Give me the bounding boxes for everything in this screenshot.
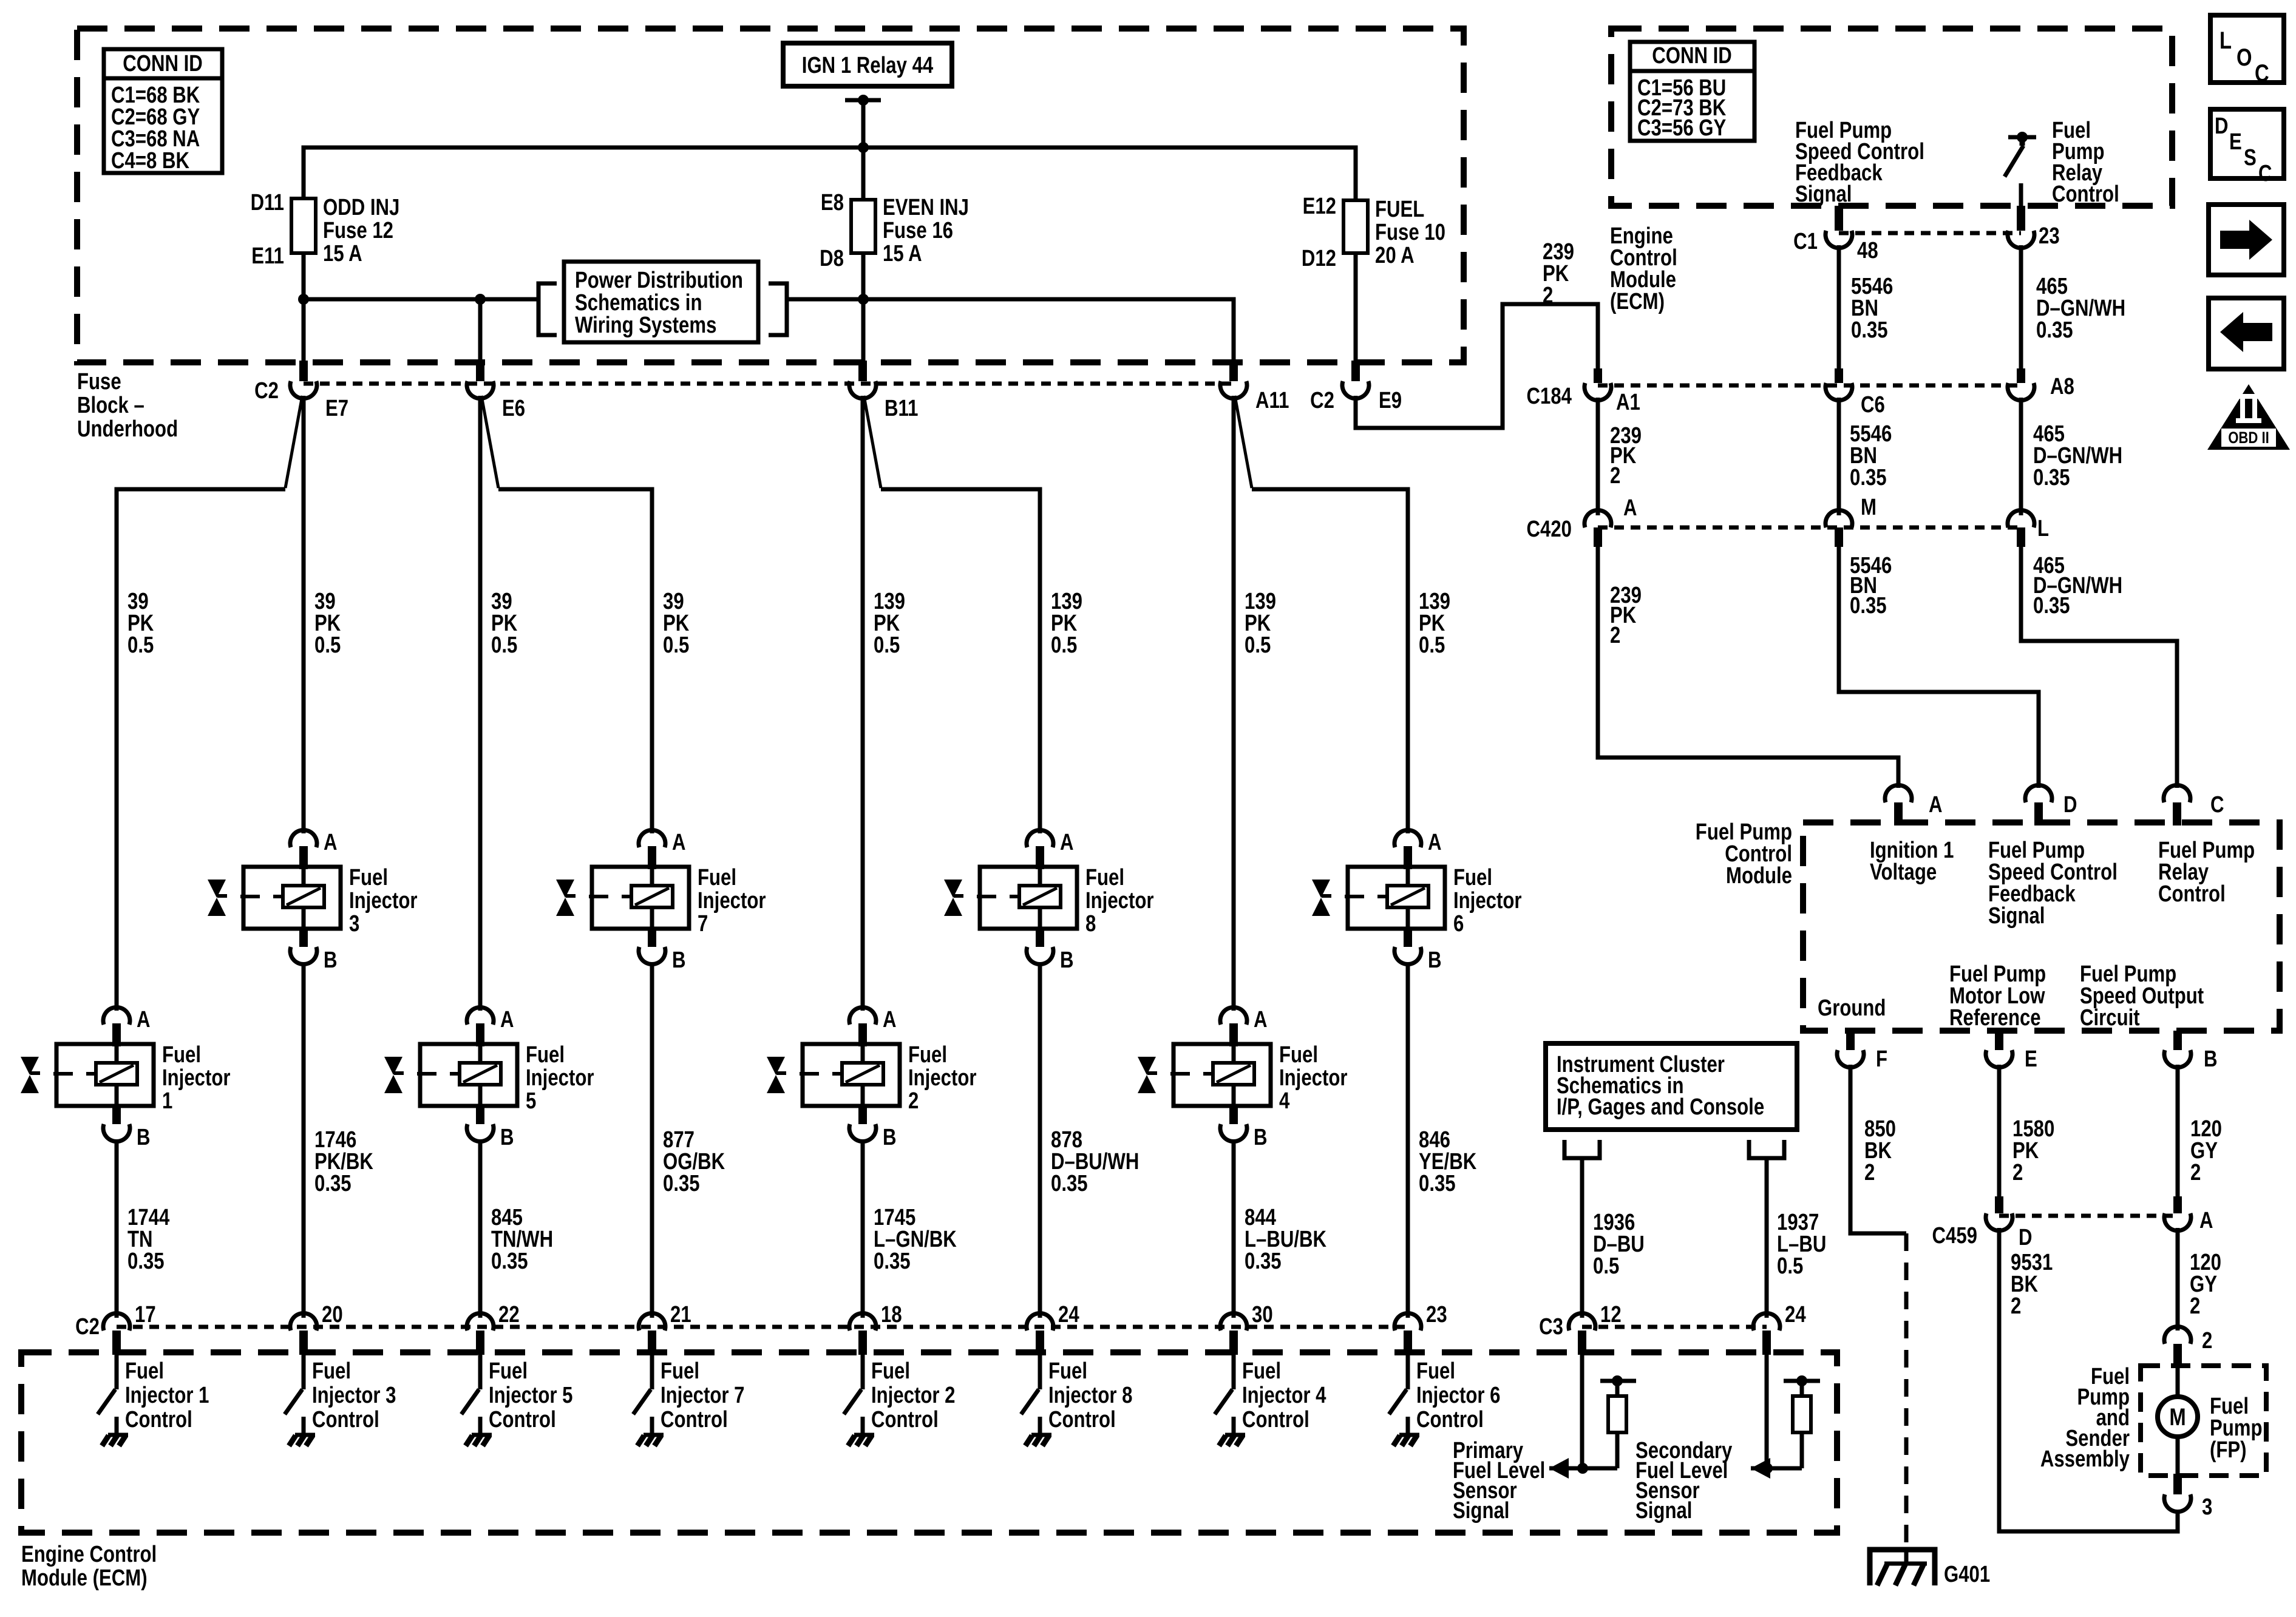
svg-text:Engine Control: Engine Control: [21, 1542, 157, 1567]
fuel injector 3 control driver switch: [285, 1355, 304, 1434]
svg-text:Control: Control: [489, 1407, 556, 1432]
wire label 1936 D-BU 0.5: [1593, 1210, 1645, 1279]
ground (injector 2 driver): [848, 1435, 874, 1446]
connector B11: [849, 361, 918, 421]
fuel injector 3: [208, 830, 418, 973]
LOC icon: [2210, 15, 2284, 87]
CONN ID table (fuse block): [104, 49, 222, 174]
svg-text:0.35: 0.35: [314, 1171, 352, 1196]
junction bus2/even fuse output: [858, 294, 869, 305]
label fuel injector 8 control: [1048, 1358, 1132, 1432]
svg-text:Injector 8: Injector 8: [1048, 1383, 1132, 1408]
connector C459 D: [1932, 1196, 2033, 1250]
svg-text:Fuel: Fuel: [1085, 865, 1124, 890]
svg-text:Fuel: Fuel: [125, 1358, 164, 1384]
ground (injector 8 driver): [1025, 1435, 1051, 1446]
svg-text:0.35: 0.35: [874, 1249, 911, 1274]
svg-text:Assembly: Assembly: [2040, 1446, 2130, 1472]
svg-text:Fuel: Fuel: [698, 865, 736, 890]
pin A (fuel pump module): [1885, 785, 1943, 825]
power distribution left bracket: [538, 283, 557, 335]
fuel injector 7: [556, 830, 766, 973]
secondary sensor signal arrow: [1751, 1458, 1802, 1479]
svg-text:Fuel: Fuel: [1048, 1358, 1087, 1384]
svg-text:E7: E7: [325, 396, 348, 421]
wire C420 L to fuel pump module C: [2021, 547, 2177, 788]
wire B to C459 A (120 GY 2): [2176, 1065, 2180, 1196]
wire label 5546 BN 0.35 (mid): [1850, 421, 1892, 490]
svg-text:C4=8 BK: C4=8 BK: [111, 148, 189, 174]
svg-text:B: B: [500, 1125, 514, 1150]
svg-text:Fuse 10: Fuse 10: [1375, 220, 1445, 245]
instrument cluster left bracket stub: [1564, 1140, 1600, 1158]
svg-text:Fuel: Fuel: [526, 1042, 565, 1068]
svg-text:Fuse 12: Fuse 12: [323, 218, 393, 243]
svg-text:Schematics in: Schematics in: [575, 290, 702, 316]
wire B11 branch to col6: [864, 396, 1040, 833]
svg-text:IGN 1 Relay 44: IGN 1 Relay 44: [802, 53, 934, 78]
svg-text:Injector: Injector: [1279, 1065, 1348, 1091]
ECM pin 24: [1753, 1302, 1806, 1355]
connector C420 L: [2008, 510, 2049, 547]
wire below injector 5: [478, 1140, 483, 1318]
bus1 horizontal feed wire: [304, 147, 1356, 200]
svg-text:Signal: Signal: [1635, 1498, 1692, 1524]
svg-text:D11: D11: [251, 190, 284, 215]
label fuel pump relay control (top): [2052, 118, 2119, 207]
right arrow icon: [2209, 205, 2284, 275]
svg-text:A: A: [1428, 830, 1442, 855]
fuel pump control module dashed box: [1803, 822, 2280, 1031]
svg-text:C: C: [2255, 59, 2269, 87]
connector E7: [254, 361, 348, 421]
svg-text:Fuel: Fuel: [1453, 865, 1492, 890]
left arrow icon: [2209, 298, 2284, 369]
svg-text:0.35: 0.35: [2033, 465, 2070, 490]
svg-text:20: 20: [322, 1302, 343, 1327]
relay output tick and junction: [845, 95, 881, 106]
svg-text:A: A: [1254, 1007, 1268, 1032]
ECM pin 48 (C1): [1793, 206, 1878, 263]
wire pin 24 into ECM: [1765, 1355, 1769, 1468]
svg-text:Injector: Injector: [349, 888, 418, 914]
fuel injector 7 control driver switch: [633, 1355, 652, 1434]
ground (injector 6 driver): [1393, 1435, 1419, 1446]
svg-text:Signal: Signal: [1988, 903, 2045, 929]
svg-text:Module (ECM): Module (ECM): [21, 1565, 148, 1591]
svg-text:B11: B11: [885, 396, 918, 421]
svg-text:Control: Control: [1242, 1407, 1309, 1432]
svg-text:2: 2: [2190, 1160, 2201, 1185]
svg-text:A: A: [672, 830, 686, 855]
svg-text:0.35: 0.35: [1419, 1171, 1456, 1196]
svg-text:Fuel: Fuel: [661, 1358, 699, 1384]
wire ground 850 BK to G401: [1850, 1065, 1906, 1548]
svg-text:2: 2: [1610, 463, 1620, 489]
connector row C459 dotted line: [1999, 1214, 2178, 1218]
wire label 878 D&#8211;BU/WH: [1051, 1127, 1139, 1196]
svg-text:A1: A1: [1616, 390, 1640, 415]
svg-text:C6: C6: [1861, 392, 1885, 418]
ECM pin 23: [2008, 206, 2060, 249]
svg-text:3: 3: [2202, 1494, 2212, 1520]
connector row C1 dotted line: [1839, 231, 2021, 236]
svg-text:0.5: 0.5: [1593, 1253, 1619, 1279]
label fuel pump speed control feedback signal (module): [1988, 838, 2118, 929]
ECM pin 22: [467, 1302, 520, 1355]
svg-text:3: 3: [349, 911, 359, 937]
wire label 845 TN/WH: [491, 1205, 553, 1274]
svg-text:2: 2: [1610, 623, 1620, 648]
svg-text:8: 8: [1085, 911, 1096, 937]
wire label 1745 L&#8211;GN/BK: [874, 1205, 957, 1274]
wire E7 branch to col1: [117, 396, 302, 1011]
svg-text:Fuel: Fuel: [489, 1358, 528, 1384]
svg-text:A: A: [137, 1007, 151, 1032]
svg-text:A8: A8: [2050, 374, 2074, 399]
svg-text:Fuel: Fuel: [908, 1042, 947, 1068]
svg-text:48: 48: [1857, 238, 1878, 263]
svg-text:Control: Control: [1048, 1407, 1116, 1432]
CONN ID table (ECM): [1630, 42, 1754, 141]
svg-text:Injector 3: Injector 3: [312, 1383, 396, 1408]
svg-text:C2: C2: [1310, 388, 1334, 413]
svg-text:0.5: 0.5: [663, 632, 689, 658]
wire motor to pin 3: [2176, 1437, 2180, 1474]
fuel pump control module name label: [1696, 819, 1792, 889]
connector C184 A1: [1527, 368, 1640, 415]
wire E9 to C184 A1 (239 PK 2): [1356, 304, 1598, 428]
svg-text:D8: D8: [820, 246, 844, 271]
svg-text:C184: C184: [1527, 384, 1572, 409]
wire below injector 7: [650, 963, 654, 1318]
wire C6 to C420 M: [1837, 398, 1841, 515]
DESC icon: [2210, 109, 2284, 186]
ground (injector 5 driver): [466, 1435, 492, 1446]
svg-text:0.35: 0.35: [1245, 1249, 1282, 1274]
svg-text:2: 2: [2012, 1160, 2023, 1185]
wire 1937 L-BU to pin 24: [1765, 1158, 1769, 1318]
wire A to pin 2 (120 GY 2): [2176, 1228, 2180, 1331]
svg-text:Voltage: Voltage: [1870, 859, 1937, 885]
fuel pump motor M: [2158, 1397, 2198, 1437]
fuse EVEN INJ Fuse 16 (E8/D8): [820, 190, 969, 271]
fuel injector 6 control driver switch: [1389, 1355, 1408, 1434]
svg-text:C2: C2: [75, 1314, 100, 1340]
fuse block label: [77, 369, 178, 442]
primary fuel level resistor: [1600, 1375, 1636, 1468]
ground G401: [1870, 1550, 1990, 1587]
connector row C2 dotted line: [304, 382, 1234, 386]
pin D (fuel pump module): [2025, 785, 2077, 825]
svg-text:B: B: [1254, 1125, 1268, 1150]
connector C184 A8: [2008, 368, 2074, 401]
svg-text:Circuit: Circuit: [2080, 1005, 2140, 1031]
pin 3 (fuel pump): [2164, 1474, 2212, 1520]
wire label 465 D-GN/WH 0.35 (upper): [2036, 274, 2125, 343]
svg-text:B: B: [883, 1125, 897, 1150]
svg-text:E: E: [2025, 1046, 2037, 1072]
connector C459 A: [2164, 1196, 2213, 1233]
svg-text:A: A: [1623, 495, 1637, 521]
svg-text:B: B: [672, 947, 686, 973]
wire A8 to C420 L: [2019, 398, 2023, 515]
bus2 right segment: [787, 299, 1234, 361]
svg-text:2: 2: [1864, 1160, 1875, 1185]
wire below injector 1: [115, 1140, 119, 1318]
connector C184 C6: [1826, 368, 1885, 418]
wire pin2 to motor: [2176, 1367, 2180, 1397]
wire below injector 8: [1038, 963, 1042, 1318]
svg-text:Power Distribution: Power Distribution: [575, 268, 743, 293]
wire bus1 to even fuse: [861, 147, 866, 200]
svg-text:24: 24: [1785, 1302, 1806, 1327]
wire label 1744 TN: [127, 1205, 170, 1274]
ECM pin 23: [1394, 1302, 1447, 1355]
wire pin 12 into ECM: [1580, 1355, 1584, 1468]
svg-text:E8: E8: [821, 190, 844, 215]
fuel injector 2: [767, 1007, 977, 1150]
wire even fuse to B11: [861, 253, 866, 361]
label fuel pump speed control feedback signal: [1795, 118, 1924, 207]
wire label 39 PK 0.5 at x=1074: [663, 589, 689, 658]
svg-text:Ground: Ground: [1818, 995, 1886, 1021]
label fuel injector 2 control: [871, 1358, 955, 1432]
fuel injector 1: [21, 1007, 231, 1150]
ECM pin 21: [639, 1302, 691, 1355]
svg-text:12: 12: [1600, 1302, 1622, 1327]
wire label 139 PK 0.5 at x=2032: [1245, 589, 1276, 658]
svg-text:A: A: [324, 830, 338, 855]
svg-text:M: M: [2169, 1403, 2186, 1431]
svg-text:0.5: 0.5: [1419, 632, 1445, 658]
svg-text:0.5: 0.5: [127, 632, 154, 658]
label engine control module (ECM) right: [1610, 223, 1677, 314]
svg-text:Control: Control: [2052, 181, 2119, 207]
svg-text:0.35: 0.35: [491, 1249, 528, 1274]
ECM label: [21, 1542, 157, 1591]
svg-text:0.35: 0.35: [2033, 593, 2070, 619]
svg-text:B: B: [1428, 947, 1442, 973]
svg-text:1: 1: [162, 1088, 172, 1114]
wire fuel fuse to E9: [1354, 253, 1358, 361]
svg-text:(FP): (FP): [2210, 1437, 2247, 1463]
svg-text:Injector 6: Injector 6: [1416, 1383, 1500, 1408]
bus2 left segment: [304, 297, 538, 302]
svg-text:2: 2: [908, 1088, 919, 1114]
label fuel injector 6 control: [1416, 1358, 1500, 1432]
svg-text:Wiring Systems: Wiring Systems: [575, 313, 716, 338]
wire label 5546 BN 0.35 (upper): [1851, 274, 1893, 343]
svg-text:Control: Control: [312, 1407, 379, 1432]
connector row C184 dotted line: [1598, 384, 2021, 388]
svg-text:E11: E11: [251, 243, 284, 269]
fuse ODD INJ Fuse 12 (D11/E11): [251, 190, 400, 269]
svg-text:L: L: [2220, 27, 2232, 54]
fuse FUEL Fuse 10 (E12/D12): [1302, 194, 1445, 271]
wire label 120 GY 2 (lower): [2190, 1250, 2221, 1319]
svg-text:C459: C459: [1932, 1223, 1977, 1249]
svg-text:Control: Control: [1416, 1407, 1484, 1432]
svg-text:C3=56 GY: C3=56 GY: [1637, 115, 1726, 141]
svg-text:L: L: [2037, 516, 2049, 541]
svg-text:O: O: [2237, 44, 2252, 71]
fuel injector 8: [944, 830, 1154, 973]
svg-text:E: E: [2229, 129, 2242, 155]
wire A11 branch to col8: [1235, 396, 1408, 833]
svg-text:C: C: [2258, 161, 2272, 186]
svg-text:0.5: 0.5: [1777, 1253, 1803, 1279]
svg-text:(ECM): (ECM): [1610, 289, 1665, 314]
svg-text:ODD INJ: ODD INJ: [323, 195, 399, 220]
svg-text:15 A: 15 A: [883, 241, 922, 266]
svg-text:Fuse 16: Fuse 16: [883, 218, 953, 243]
svg-text:Fuel: Fuel: [162, 1042, 201, 1068]
svg-text:S: S: [2244, 145, 2257, 171]
label fuel injector 4 control: [1242, 1358, 1326, 1432]
ECM pin 24: [1027, 1302, 1079, 1355]
wire label 120 GY 2 (upper): [2190, 1116, 2222, 1185]
secondary fuel level resistor: [1784, 1375, 1820, 1468]
svg-text:15 A: 15 A: [323, 241, 362, 266]
svg-text:C420: C420: [1527, 517, 1572, 542]
svg-text:Injector 4: Injector 4: [1242, 1383, 1326, 1408]
svg-text:2: 2: [2202, 1328, 2212, 1354]
pin B (fuel pump module): [2164, 1031, 2218, 1072]
wire label 1580 PK 2: [2012, 1116, 2054, 1185]
instrument cluster schematics box: [1546, 1043, 1797, 1130]
wire 5546 BN upper: [1837, 245, 1841, 368]
ECM connector row C2 dotted line: [117, 1325, 1408, 1329]
svg-text:0.5: 0.5: [491, 632, 517, 658]
connector row C420 dotted line: [1598, 526, 2021, 530]
svg-text:20 A: 20 A: [1375, 243, 1415, 268]
svg-text:Control: Control: [125, 1407, 192, 1432]
ground (injector 3 driver): [289, 1435, 315, 1446]
svg-text:4: 4: [1279, 1088, 1290, 1114]
wire label 465 D-GN/WH 0.35 (mid): [2033, 421, 2122, 490]
svg-text:B: B: [137, 1125, 151, 1150]
svg-text:FUEL: FUEL: [1375, 197, 1424, 222]
label fuel pump relay control (module): [2158, 838, 2255, 907]
pin C (fuel pump module): [2164, 785, 2224, 825]
fuel injector 8 control driver switch: [1021, 1355, 1040, 1434]
fuel injector 2 control driver switch: [844, 1355, 863, 1434]
svg-text:0.35: 0.35: [663, 1171, 700, 1196]
pin F (fuel pump module): [1837, 1031, 1887, 1072]
svg-text:M: M: [1861, 495, 1877, 520]
label secondary fuel level sensor signal: [1635, 1438, 1733, 1524]
svg-text:C: C: [2210, 792, 2224, 818]
ECM pin 20: [290, 1302, 343, 1355]
label fuel injector 1 control: [125, 1358, 209, 1432]
svg-text:Signal: Signal: [1453, 1498, 1509, 1524]
wire label 139 PK 0.5 at x=2319: [1419, 589, 1450, 658]
svg-text:Injector: Injector: [1453, 888, 1522, 914]
wire below injector 6: [1406, 963, 1410, 1318]
svg-text:D: D: [2019, 1225, 2033, 1250]
svg-text:23: 23: [1426, 1302, 1447, 1327]
wire C420 M to fuel pump module D: [1839, 547, 2039, 788]
ground (injector 1 driver): [102, 1435, 128, 1446]
ECM pin 17: [103, 1302, 156, 1355]
svg-text:A11: A11: [1255, 388, 1289, 413]
svg-text:A: A: [883, 1007, 897, 1032]
svg-text:Injector: Injector: [908, 1065, 977, 1091]
wire label 5546 BN 0.35 (lower): [1850, 553, 1892, 619]
svg-text:Fuel: Fuel: [349, 865, 388, 890]
wire label 139 PK 0.5 at x=1421: [874, 589, 905, 658]
ECM pin 12: [1569, 1302, 1622, 1355]
wire E6 branch to col4: [481, 396, 652, 833]
label fuel injector 5 control: [489, 1358, 572, 1432]
pin 2 (fuel pump): [2164, 1326, 2212, 1367]
wire D to fuel pump return: [1999, 1228, 2178, 1531]
primary sensor signal arrow: [1549, 1458, 1617, 1479]
wire A1 to C420: [1596, 398, 1600, 515]
wire E to C459 (1580 PK 2): [1997, 1065, 2002, 1196]
svg-text:OBD II: OBD II: [2228, 429, 2269, 447]
fuel injector 4 control driver switch: [1215, 1355, 1234, 1434]
wire below injector 3: [302, 963, 306, 1318]
fuel injector 4: [1138, 1007, 1348, 1150]
svg-text:CONN ID: CONN ID: [1652, 43, 1732, 69]
svg-text:21: 21: [670, 1302, 691, 1327]
svg-text:E12: E12: [1303, 194, 1336, 219]
svg-text:Injector 2: Injector 2: [871, 1383, 955, 1408]
fuel injector 6: [1312, 830, 1522, 973]
svg-text:B: B: [2204, 1046, 2218, 1072]
svg-text:0.5: 0.5: [874, 632, 900, 658]
svg-text:Injector: Injector: [698, 888, 766, 914]
svg-text:0.35: 0.35: [127, 1249, 165, 1274]
wire label 39 PK 0.5 at x=791: [491, 589, 517, 658]
svg-text:0.35: 0.35: [1051, 1171, 1088, 1196]
connector A11: [1220, 361, 1289, 413]
wire E7 to col2: [302, 396, 306, 833]
label fuel injector 7 control: [661, 1358, 744, 1432]
svg-text:G401: G401: [1944, 1562, 1990, 1587]
wire B11 to col5: [861, 396, 865, 1011]
svg-text:24: 24: [1058, 1302, 1079, 1327]
junction bus2/E6 branch: [475, 294, 486, 305]
connector C420 M: [1826, 495, 1877, 547]
wire E6 to col3: [478, 396, 483, 1011]
svg-text:23: 23: [2039, 223, 2060, 249]
wire label 239 PK 2 (third): [1610, 583, 1642, 648]
IGN 1 Relay 44 box: [783, 43, 952, 86]
svg-text:0.5: 0.5: [1051, 632, 1077, 658]
svg-text:Fuse: Fuse: [77, 369, 121, 395]
svg-text:Injector 7: Injector 7: [661, 1383, 744, 1408]
svg-text:0.35: 0.35: [1851, 317, 1888, 343]
svg-text:22: 22: [498, 1302, 520, 1327]
ECM pin 30: [1220, 1302, 1273, 1355]
wire label 846 YE/BK: [1419, 1127, 1476, 1196]
svg-text:Injector: Injector: [526, 1065, 594, 1091]
label C3 (ECM connector): [1539, 1314, 1563, 1340]
engine control module top dashed box: [1611, 29, 2172, 206]
svg-text:D: D: [2215, 114, 2229, 139]
wire label 39 PK 0.5 at x=192: [127, 589, 154, 658]
wire label 844 L&#8211;BU/BK: [1245, 1205, 1326, 1274]
instrument cluster right bracket stub: [1749, 1140, 1784, 1158]
svg-text:Fuel: Fuel: [312, 1358, 351, 1384]
wire odd fuse to bus2: [302, 253, 306, 361]
wire label 850 BK 2: [1864, 1116, 1896, 1185]
svg-text:Fuel: Fuel: [1279, 1042, 1318, 1068]
svg-text:B: B: [1060, 947, 1074, 973]
